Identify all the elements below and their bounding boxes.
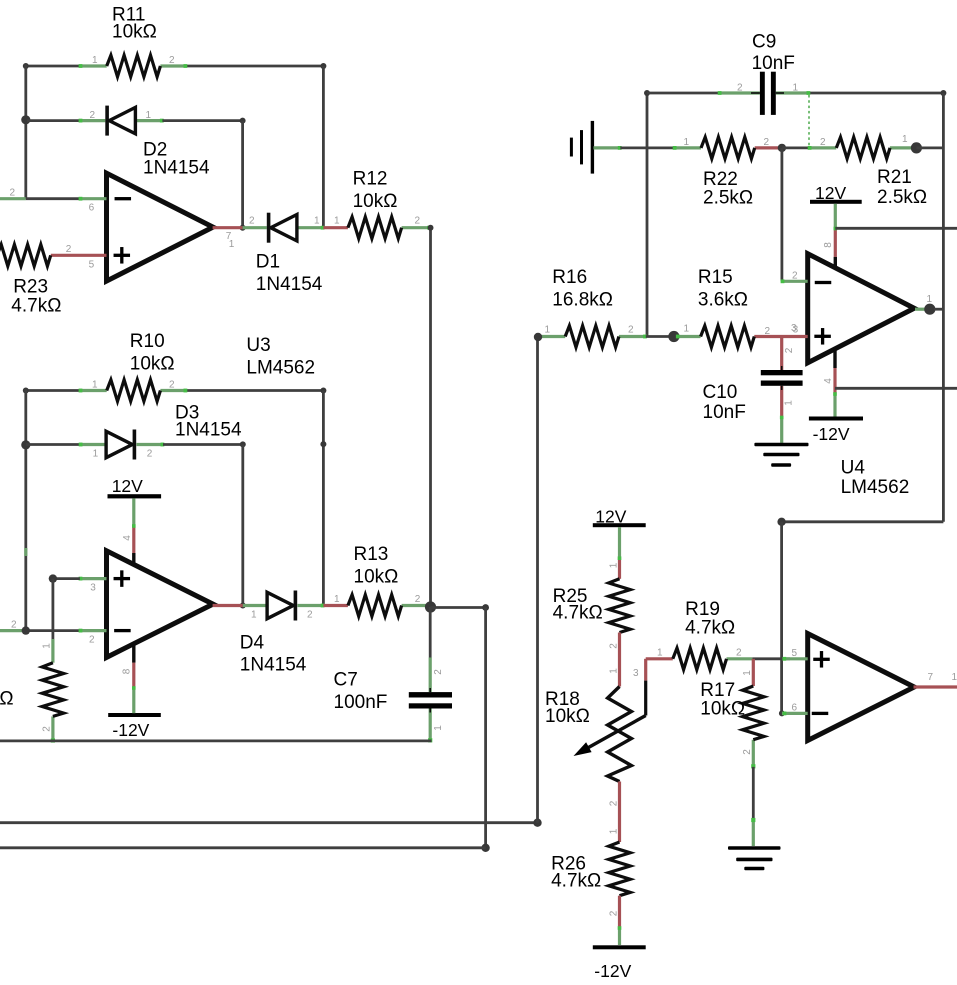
resistor R11 [79,4,188,76]
wire [647,92,719,95]
resistor R23 [0,244,72,316]
svg-text:R13: R13 [354,544,389,565]
wire [809,92,945,95]
wire [27,119,80,122]
svg-text:2: 2 [433,669,444,675]
op-amp U4 B [782,634,914,741]
svg-text:-12V: -12V [112,720,149,740]
svg-text:3: 3 [633,668,639,679]
svg-text:3.6kΩ: 3.6kΩ [698,289,748,310]
wire [0,740,432,743]
op-amp U4 A [781,254,933,363]
wire [186,65,325,68]
svg-text:2: 2 [737,83,743,94]
svg-text:1N4154: 1N4154 [240,654,307,675]
svg-text:2: 2 [765,326,771,337]
svg-text:1: 1 [952,672,957,683]
svg-text:LM4562: LM4562 [246,358,315,379]
svg-text:2: 2 [609,910,620,916]
svg-text:2: 2 [89,635,95,646]
svg-text:12V: 12V [112,476,143,496]
wire [752,657,790,660]
resistor R15 [676,267,808,347]
wire [0,821,538,824]
wire [835,227,957,230]
svg-text:10nF: 10nF [752,53,795,74]
svg-text:1: 1 [251,610,257,621]
potentiometer R18 [545,659,646,806]
wire [322,391,325,606]
junction [425,601,436,612]
svg-text:4.7kΩ: 4.7kΩ [685,617,735,638]
svg-text:2.5kΩ: 2.5kΩ [877,187,927,208]
wire [241,121,244,228]
svg-text:2: 2 [307,610,313,621]
diode D3 [79,403,242,460]
svg-text:1: 1 [609,828,620,834]
svg-text:12V: 12V [595,506,626,526]
op-amp U3 A [0,173,243,281]
svg-text:10kΩ: 10kΩ [545,706,590,727]
wire [942,93,945,522]
svg-text:4.7kΩ: 4.7kΩ [553,603,603,624]
wire [916,146,943,149]
svg-text:1: 1 [92,55,98,66]
svg-text:2: 2 [792,270,798,281]
wire [782,520,944,523]
svg-text:D1: D1 [256,251,280,272]
resistor R26 [551,842,630,916]
svg-text:2: 2 [41,726,52,732]
wire [429,226,432,607]
svg-text:10kΩ: 10kΩ [112,21,157,42]
svg-text:1N4154: 1N4154 [256,274,323,295]
wire [431,606,486,609]
svg-text:5: 5 [792,648,798,659]
junction [21,440,30,449]
svg-text:10kΩ: 10kΩ [130,354,175,375]
svg-text:2: 2 [10,188,16,199]
svg-text:U3: U3 [246,335,270,356]
svg-text:-12V: -12V [594,961,631,981]
svg-text:10kΩ: 10kΩ [700,698,745,719]
svg-text:-12V: -12V [813,424,850,444]
svg-text:4: 4 [823,378,834,384]
svg-text:1: 1 [314,216,320,227]
ground [570,121,622,174]
svg-text:1: 1 [609,562,620,568]
wire [24,389,27,630]
svg-text:1: 1 [684,324,690,335]
svg-text:8: 8 [823,242,834,248]
resistor R10 [79,331,188,401]
svg-text:3: 3 [90,583,96,594]
svg-text:2: 2 [169,55,175,66]
svg-text:1: 1 [334,594,340,605]
power -12V [593,896,646,981]
diode D1 [243,213,325,295]
wire [536,337,539,823]
wire [620,146,674,149]
svg-text:4.7kΩ: 4.7kΩ [551,870,601,891]
svg-text:1: 1 [334,216,340,227]
svg-text:100nF: 100nF [334,692,388,713]
power 12V [108,476,162,566]
svg-text:10kΩ: 10kΩ [353,191,398,212]
svg-text:4.7kΩ: 4.7kΩ [0,689,14,710]
wire [782,146,809,149]
svg-text:2: 2 [11,619,17,630]
resistor R13 [323,544,428,616]
wire [241,444,244,605]
junction [778,144,786,152]
junction [21,115,30,124]
svg-text:3: 3 [791,323,797,334]
resistor R19 [646,599,753,670]
svg-text:5: 5 [89,259,95,270]
svg-text:2: 2 [764,137,770,148]
resistor R25 [553,579,631,649]
svg-text:1: 1 [657,647,663,658]
wire [322,66,325,228]
svg-text:10kΩ: 10kΩ [354,566,399,587]
svg-text:1: 1 [545,325,551,336]
svg-text:6: 6 [792,702,798,713]
resistor R17 [700,659,764,769]
svg-text:2: 2 [784,347,795,353]
svg-text:R21: R21 [877,167,912,188]
junction [924,304,935,315]
svg-text:2.5kΩ: 2.5kΩ [703,188,753,209]
svg-text:1N4154: 1N4154 [175,420,242,441]
capacitor C10 [703,337,803,424]
junction [534,333,542,341]
svg-text:12V: 12V [815,183,846,203]
svg-text:2: 2 [820,137,826,148]
svg-text:1: 1 [229,239,235,250]
wire [24,65,27,199]
svg-text:1: 1 [433,725,444,731]
resistor R22 [673,137,782,209]
diode D4 [240,591,325,676]
svg-text:2: 2 [90,110,96,121]
wire [752,767,755,820]
junction [668,331,679,342]
ic U3 label [246,335,315,379]
wire [646,92,649,337]
wire [914,685,957,688]
capacitor C9 [718,31,811,115]
svg-text:2: 2 [169,380,175,391]
power -12V [108,644,161,740]
junction [911,142,922,153]
wire [0,846,486,849]
svg-text:2: 2 [249,216,255,227]
svg-text:1N4154: 1N4154 [143,158,210,179]
wire [24,389,80,392]
wire [186,389,325,392]
svg-text:8: 8 [122,668,133,674]
svg-text:1: 1 [92,380,98,391]
power -12V [809,349,863,444]
op-amp U3 B [0,551,243,658]
wire [24,65,80,68]
svg-text:10nF: 10nF [703,402,746,423]
ratsnest [808,95,810,146]
svg-text:7: 7 [928,672,934,683]
power 12V [593,506,646,579]
svg-text:C7: C7 [334,669,358,690]
svg-text:LM4562: LM4562 [841,477,910,498]
svg-text:2: 2 [415,216,421,227]
junction [777,518,785,526]
svg-text:2: 2 [415,594,421,605]
svg-text:2: 2 [742,749,753,755]
svg-text:D4: D4 [240,632,265,653]
resistor R21 [808,134,927,208]
wire [781,148,784,281]
svg-text:1: 1 [41,643,52,649]
svg-text:1: 1 [902,134,908,145]
svg-text:2: 2 [147,449,153,460]
wire [53,577,80,580]
wire [484,608,487,848]
junction [22,626,30,634]
svg-text:2: 2 [736,647,742,658]
resistor R16 [538,267,647,347]
svg-text:C9: C9 [752,31,776,52]
svg-text:R15: R15 [698,267,733,288]
wire [934,308,943,311]
svg-text:1: 1 [93,449,99,460]
svg-text:1: 1 [146,110,152,121]
svg-text:16.8kΩ: 16.8kΩ [552,289,613,310]
svg-text:1: 1 [609,668,620,674]
ground [754,416,808,467]
wire [26,443,80,446]
svg-text:C10: C10 [703,382,738,403]
wire [52,579,55,639]
svg-text:R16: R16 [552,267,587,288]
wire [162,119,244,122]
svg-text:1: 1 [742,670,753,676]
wire [646,335,676,338]
svg-text:R10: R10 [130,331,165,352]
svg-text:2: 2 [609,643,620,649]
svg-text:1: 1 [793,83,799,94]
diode D2 [79,106,210,179]
wire [163,443,244,446]
svg-text:1: 1 [684,137,690,148]
svg-text:2: 2 [628,325,634,336]
svg-text:1: 1 [927,294,933,305]
wire [780,522,783,714]
svg-text:2: 2 [609,800,620,806]
wire [618,782,621,843]
resistor R12 [323,169,431,239]
wire [835,387,957,390]
svg-text:R12: R12 [353,169,388,190]
power 12V [810,183,862,269]
ic U4 label [841,457,910,498]
resistor R24 [0,639,64,743]
wire [618,633,621,687]
svg-text:1: 1 [784,400,795,406]
ground [728,818,781,870]
wire [24,548,27,556]
svg-text:6: 6 [89,203,95,214]
svg-text:U4: U4 [841,457,866,478]
svg-text:4.7kΩ: 4.7kΩ [11,295,61,316]
svg-text:4: 4 [122,535,133,541]
capacitor C7 [334,607,453,742]
svg-text:2: 2 [66,244,72,255]
